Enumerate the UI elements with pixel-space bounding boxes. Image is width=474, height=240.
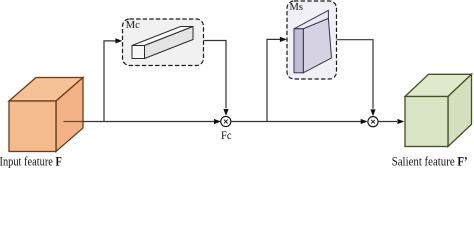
salient feature cube front face xyxy=(405,97,448,147)
input feature cube top face xyxy=(9,78,83,102)
svg-text:Input feature F: Input feature F xyxy=(0,155,62,168)
salient feature cube right face xyxy=(448,74,472,146)
input feature cube front face xyxy=(9,101,56,152)
arrowhead into Mc box xyxy=(115,38,122,43)
arrowhead into second multiplier xyxy=(361,119,368,124)
main wire from first to second multiplier xyxy=(231,121,365,123)
main wire from cube to first multiplier xyxy=(64,121,84,123)
wire from Ms box down to second multiplier xyxy=(337,40,373,109)
svg-text:Ms: Ms xyxy=(290,2,303,13)
branch wire up to Ms xyxy=(267,39,280,121)
multiplier circle (spatial) xyxy=(368,117,378,127)
arrowhead into Ms box xyxy=(280,37,287,42)
channel attention bar (3D) top face xyxy=(132,27,193,46)
channel attention bar side face xyxy=(145,27,194,59)
arrowhead into output cube xyxy=(397,119,404,124)
spatial attention module box Ms xyxy=(287,1,337,79)
channel attention module box Mc xyxy=(123,19,204,66)
spatial attention slab top face xyxy=(294,10,328,29)
multiplier circle Fc xyxy=(221,116,231,126)
svg-text:Fc: Fc xyxy=(221,129,232,142)
arrowhead down into second multiplier xyxy=(370,109,375,116)
svg-text:Mc: Mc xyxy=(126,20,140,31)
spatial attention slab right face xyxy=(303,18,331,72)
arrowhead into first multiplier xyxy=(214,119,221,124)
spatial attention slab front face xyxy=(294,29,303,73)
input feature cube right face xyxy=(56,78,83,152)
wire from second multiplier to output cube xyxy=(378,121,397,123)
svg-text:Salient feature F’: Salient feature F’ xyxy=(392,154,468,168)
salient feature cube top face xyxy=(405,74,472,96)
branch wire up to Mc xyxy=(104,41,116,122)
channel attention bar front face xyxy=(132,46,145,59)
wire from Mc box down to first multiplier xyxy=(204,41,226,109)
arrowhead down into first multiplier xyxy=(223,109,228,116)
